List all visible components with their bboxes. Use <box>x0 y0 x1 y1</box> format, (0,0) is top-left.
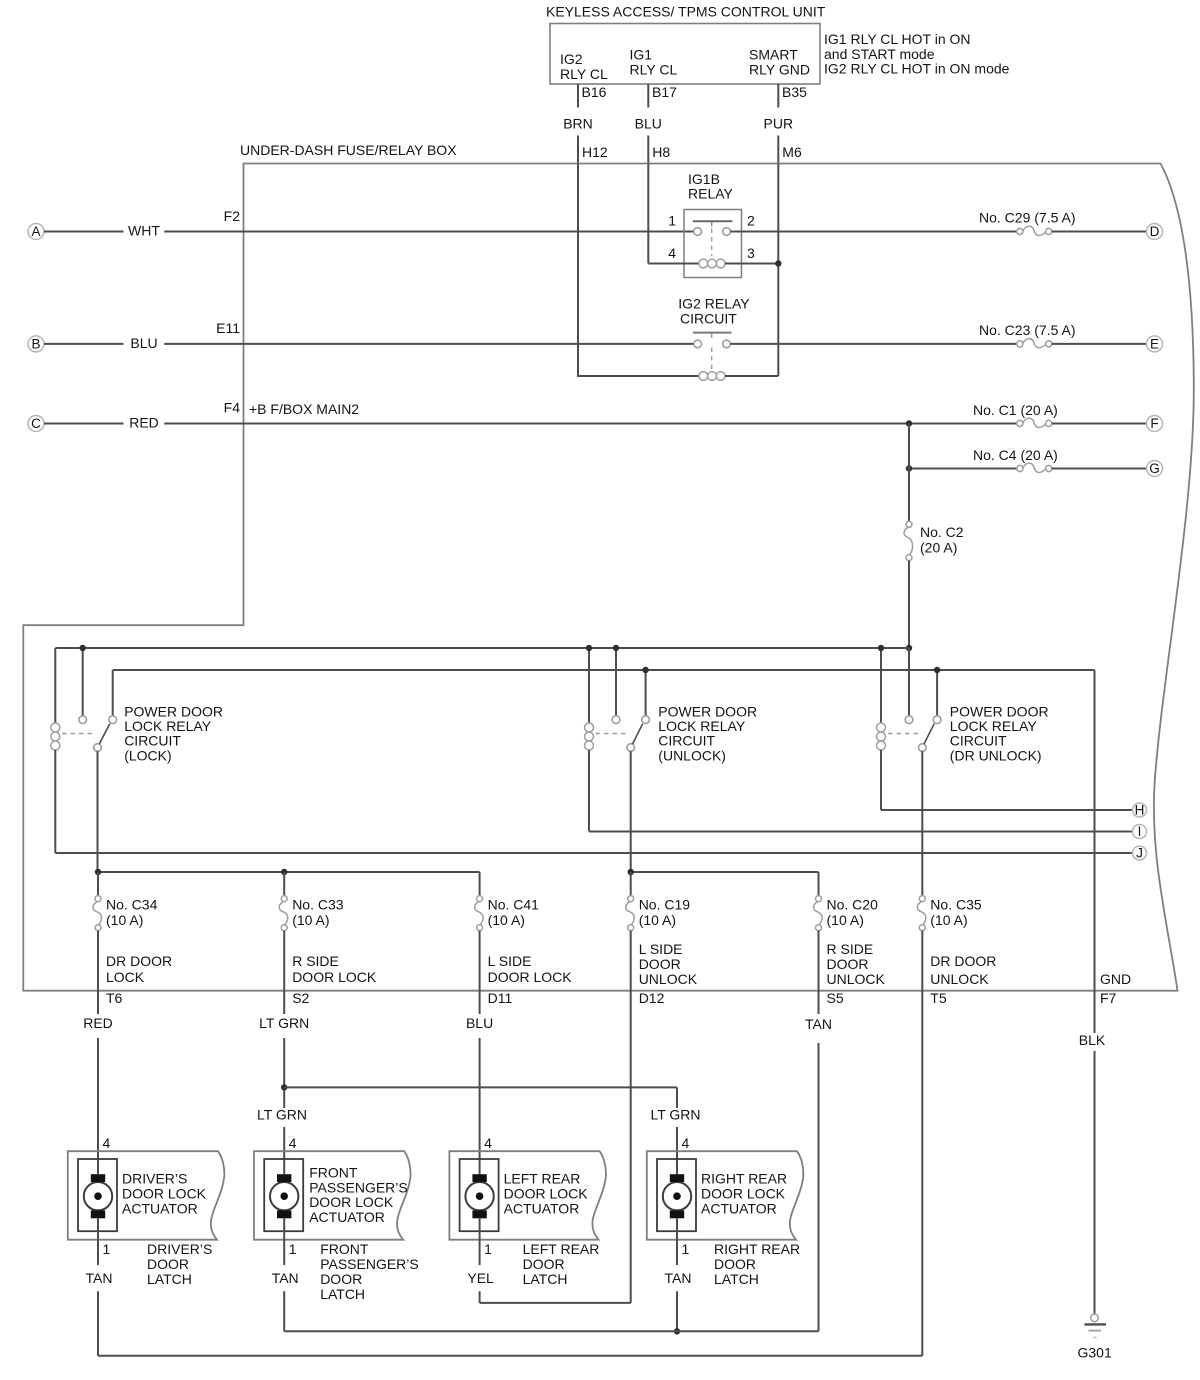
svg-text:E: E <box>1150 337 1159 352</box>
wire row B left <box>44 343 694 345</box>
under-dash fuse/relay box outline <box>23 164 1194 991</box>
svg-text:D12: D12 <box>639 990 665 1006</box>
fuse C29 <box>1017 228 1023 234</box>
relay IG1B label <box>688 171 734 202</box>
svg-text:RED: RED <box>83 1015 113 1031</box>
relay IG1B pin numbers 1,2,4,3 <box>668 213 755 262</box>
wire C29 to D <box>1052 231 1147 233</box>
fuse C34 <box>95 896 101 902</box>
svg-text:RIGHT REAR: RIGHT REAR <box>714 1241 800 1257</box>
svg-text:LATCH: LATCH <box>523 1271 568 1287</box>
svg-text:R SIDE: R SIDE <box>292 953 339 969</box>
svg-text:BLK: BLK <box>1079 1032 1106 1048</box>
pin label SMART RLY GND <box>749 47 810 78</box>
connector G <box>1147 461 1163 477</box>
svg-text:L SIDE: L SIDE <box>639 941 683 957</box>
svg-text:F2: F2 <box>224 208 241 224</box>
svg-text:DOOR: DOOR <box>320 1271 362 1287</box>
svg-text:DOOR LOCK: DOOR LOCK <box>488 969 573 985</box>
wire H8 vertical to relay pin 4 <box>648 164 684 264</box>
svg-text:1: 1 <box>289 1241 297 1257</box>
svg-text:UNLOCK: UNLOCK <box>639 971 698 987</box>
svg-text:POWER DOOR: POWER DOOR <box>658 703 757 719</box>
wire M6 vertical <box>777 164 779 377</box>
svg-text:UNLOCK: UNLOCK <box>930 971 989 987</box>
fuse C20 <box>816 896 822 902</box>
svg-text:No. C34: No. C34 <box>106 897 158 913</box>
svg-text:No. C19: No. C19 <box>639 897 691 913</box>
svg-text:1: 1 <box>103 1241 111 1257</box>
svg-text:DOOR LOCK: DOOR LOCK <box>292 969 377 985</box>
svg-text:T5: T5 <box>930 990 947 1006</box>
svg-text:LT GRN: LT GRN <box>259 1015 309 1031</box>
IG2 relay contact bar <box>693 333 732 338</box>
UNLOCK relay blade <box>633 724 643 744</box>
wire front passenger latch drop <box>283 1291 285 1331</box>
wire D11 + color BLU <box>466 931 493 1174</box>
wire S2 lower + color LT GRN <box>257 1107 307 1175</box>
power door lock relay (LOCK) coil branch <box>51 648 60 853</box>
pin B17 <box>648 84 677 108</box>
svg-text:DR DOOR: DR DOOR <box>106 953 172 969</box>
svg-text:H12: H12 <box>582 144 608 160</box>
svg-text:DOOR LOCK: DOOR LOCK <box>701 1186 786 1202</box>
wire pin1 + color TAN <box>665 1218 692 1286</box>
svg-text:F: F <box>1150 416 1158 431</box>
svg-text:DOOR LOCK: DOOR LOCK <box>504 1186 589 1202</box>
svg-text:LT GRN: LT GRN <box>257 1107 307 1123</box>
drop to fuse C33 <box>283 872 285 896</box>
svg-text:POWER DOOR: POWER DOOR <box>124 703 223 719</box>
junction row C / C2 branch <box>906 420 912 426</box>
IG2 relay circuit label <box>678 295 750 326</box>
svg-text:No. C33: No. C33 <box>292 897 344 913</box>
svg-text:H: H <box>1135 803 1145 818</box>
wire relay IG1B pin2 to fuse C29 <box>730 231 1016 233</box>
svg-text:PUR: PUR <box>764 116 794 132</box>
svg-text:TAN: TAN <box>805 1016 832 1032</box>
actuator motor <box>270 1174 298 1218</box>
latch label LEFT REAR <box>523 1241 600 1287</box>
relay IG1B contact bar <box>693 221 732 226</box>
svg-text:A: A <box>31 224 40 239</box>
DR UNLOCK relay dashed link <box>888 733 918 735</box>
svg-text:(LOCK): (LOCK) <box>124 747 171 763</box>
power door lock relay (UNLOCK) coil branch <box>585 648 594 832</box>
svg-text:4: 4 <box>484 1135 492 1151</box>
wire S5 upper + color TAN <box>805 931 832 1332</box>
svg-text:IG1 RLY CL HOT in ON: IG1 RLY CL HOT in ON <box>824 31 971 47</box>
svg-text:F7: F7 <box>1100 990 1117 1006</box>
svg-text:D: D <box>1150 224 1160 239</box>
fuse C33 <box>281 896 287 902</box>
wire C4 to G <box>1052 468 1147 470</box>
actuator label FRONT <box>309 1165 408 1225</box>
svg-text:GND: GND <box>1100 971 1131 987</box>
svg-text:ACTUATOR: ACTUATOR <box>309 1209 385 1225</box>
svg-text:DRIVER’S: DRIVER’S <box>122 1171 187 1187</box>
svg-text:RED: RED <box>129 415 159 431</box>
svg-text:No. C2: No. C2 <box>920 524 964 540</box>
LOCK relay output drop <box>97 751 99 872</box>
svg-text:G: G <box>1149 461 1160 476</box>
svg-text:DOOR: DOOR <box>827 956 869 972</box>
net label DR DOOR UNLOCK <box>930 953 996 987</box>
drop to fuse C19 <box>630 872 632 896</box>
svg-text:DOOR LOCK: DOOR LOCK <box>122 1186 207 1202</box>
svg-text:4: 4 <box>289 1135 297 1151</box>
DR UNLOCK relay blade <box>924 724 934 744</box>
svg-text:KEYLESS ACCESS/ TPMS CONTROL U: KEYLESS ACCESS/ TPMS CONTROL UNIT <box>546 4 826 20</box>
drop to fuse C34 <box>97 872 99 896</box>
UNLOCK relay contact pins <box>612 716 649 752</box>
pin label IG1 RLY CL <box>630 47 678 78</box>
ground G301 symbol <box>1084 1314 1106 1337</box>
svg-text:3: 3 <box>747 245 755 261</box>
wire C2 vertical lower <box>908 561 910 716</box>
svg-text:LOCK RELAY: LOCK RELAY <box>658 718 746 734</box>
LOCK relay dashed link <box>62 733 92 735</box>
svg-text:LOCK: LOCK <box>106 969 145 985</box>
pin B35 <box>778 84 807 108</box>
net label L SIDE DOOR LOCK <box>488 953 573 985</box>
svg-text:(10 A): (10 A) <box>106 912 143 928</box>
svg-text:YEL: YEL <box>467 1270 494 1286</box>
svg-text:No. C1 (20 A): No. C1 (20 A) <box>973 402 1058 418</box>
connector C <box>28 416 44 432</box>
actuator motor <box>663 1174 691 1218</box>
connector M6 <box>778 136 802 164</box>
svg-text:D11: D11 <box>488 990 513 1006</box>
wire driver latch to T5 <box>98 1291 922 1356</box>
relay IG1B box <box>684 210 742 278</box>
wire C23 to E <box>1052 343 1147 345</box>
svg-text:DOOR LOCK: DOOR LOCK <box>309 1194 394 1210</box>
svg-text:LATCH: LATCH <box>320 1286 365 1302</box>
svg-text:I: I <box>1138 824 1142 839</box>
latch label DRIVER’S <box>147 1241 212 1287</box>
svg-text:CIRCUIT: CIRCUIT <box>680 310 737 326</box>
control unit U1 box <box>550 24 820 85</box>
wire C4 branch <box>909 468 1017 470</box>
fuse C4 <box>1017 465 1023 471</box>
actuator box: FRONT PASSENGER’S DOOR LOCK ACTUATOR <box>254 1151 411 1240</box>
svg-text:(10 A): (10 A) <box>639 912 676 928</box>
UNLOCK relay label <box>658 703 757 763</box>
lock bus junctions <box>95 869 288 875</box>
svg-text:J: J <box>1136 846 1143 861</box>
fuse C19 <box>628 896 634 902</box>
pin label IG2 RLY CL <box>560 51 608 82</box>
svg-text:DRIVER’S: DRIVER’S <box>147 1241 212 1257</box>
svg-text:ACTUATOR: ACTUATOR <box>122 1201 198 1217</box>
svg-text:ACTUATOR: ACTUATOR <box>701 1201 777 1217</box>
connector F <box>1147 416 1163 432</box>
svg-text:IG1: IG1 <box>630 47 653 63</box>
svg-text:DOOR: DOOR <box>639 956 681 972</box>
svg-text:1: 1 <box>668 213 676 229</box>
wire C2 vertical upper <box>908 424 910 522</box>
actuator connector rect <box>657 1159 696 1231</box>
svg-text:(DR UNLOCK): (DR UNLOCK) <box>950 747 1042 763</box>
actuator motor <box>465 1174 493 1218</box>
UNLOCK relay output drop <box>630 751 632 872</box>
actuator label DRIVER’S <box>122 1171 207 1217</box>
lock output bus <box>98 872 480 896</box>
wire row C left <box>44 423 1017 425</box>
svg-text:S5: S5 <box>827 990 844 1006</box>
svg-text:PASSENGER’S: PASSENGER’S <box>320 1256 419 1272</box>
wire H12 vertical <box>577 164 579 377</box>
svg-text:CIRCUIT: CIRCUIT <box>124 733 181 749</box>
wire pin1 + color TAN <box>86 1218 113 1286</box>
svg-text:F4: F4 <box>224 400 241 416</box>
svg-text:RLY CL: RLY CL <box>560 66 608 82</box>
connector H8 <box>648 136 670 164</box>
svg-text:TAN: TAN <box>272 1270 299 1286</box>
svg-text:CIRCUIT: CIRCUIT <box>658 733 715 749</box>
svg-text:4: 4 <box>103 1135 111 1151</box>
svg-text:BRN: BRN <box>563 116 593 132</box>
svg-text:LATCH: LATCH <box>714 1271 759 1287</box>
connector E <box>1147 336 1163 352</box>
actuator motor <box>84 1174 112 1218</box>
svg-text:PASSENGER’S: PASSENGER’S <box>309 1179 408 1195</box>
unlock bus junction <box>628 869 634 875</box>
svg-text:(10 A): (10 A) <box>488 912 525 928</box>
svg-text:ACTUATOR: ACTUATOR <box>504 1201 580 1217</box>
svg-text:(10 A): (10 A) <box>827 912 864 928</box>
wire right rear pin4 + color LT GRN <box>650 1107 700 1175</box>
power door lock relay (DR UNLOCK) coil branch <box>877 648 886 810</box>
svg-text:RLY GND: RLY GND <box>749 62 810 78</box>
note: relay hot modes <box>824 31 1010 77</box>
svg-text:FRONT: FRONT <box>309 1165 358 1181</box>
fuse C41 label <box>488 897 540 929</box>
fuse C2 label <box>920 524 964 556</box>
svg-text:FRONT: FRONT <box>320 1241 369 1257</box>
UNLOCK relay dashed link <box>596 733 626 735</box>
svg-text:TAN: TAN <box>86 1270 113 1286</box>
net label R SIDE DOOR LOCK <box>292 953 377 985</box>
wire right rear latch drop <box>676 1291 678 1331</box>
svg-text:CIRCUIT: CIRCUIT <box>950 733 1007 749</box>
actuator box: DRIVER’S DOOR LOCK ACTUATOR <box>68 1151 225 1240</box>
DR UNLOCK relay contact feed drops <box>909 648 937 716</box>
actuator connector rect <box>460 1159 499 1231</box>
svg-text:BLU: BLU <box>635 116 662 132</box>
svg-text:No. C41: No. C41 <box>488 897 540 913</box>
wire T5 vertical <box>921 931 923 1356</box>
fuse C1 <box>1017 420 1023 426</box>
fuse C20 label <box>827 897 879 929</box>
DR UNLOCK relay bus junctions <box>878 645 941 673</box>
fuse C19 label <box>639 897 691 929</box>
wire relay IG1B pin3 to M6 <box>742 263 779 265</box>
LOCK relay contact pins <box>79 716 117 752</box>
svg-text:E11: E11 <box>216 320 240 336</box>
svg-text:H8: H8 <box>652 144 670 160</box>
wire row A left <box>44 231 694 233</box>
fuse C2 <box>906 521 912 527</box>
svg-text:No. C20: No. C20 <box>827 897 879 913</box>
svg-text:+B F/BOX MAIN2: +B F/BOX MAIN2 <box>249 401 359 417</box>
svg-text:WHT: WHT <box>128 223 160 239</box>
connector I <box>1133 825 1147 839</box>
junction C2/bus1 <box>906 645 912 651</box>
svg-text:L SIDE: L SIDE <box>488 953 532 969</box>
svg-text:B16: B16 <box>582 84 607 100</box>
svg-text:LEFT REAR: LEFT REAR <box>523 1241 600 1257</box>
svg-text:IG2 RELAY: IG2 RELAY <box>678 295 750 311</box>
latch label RIGHT REAR <box>714 1241 800 1287</box>
relay IG1B armature dashed link <box>711 229 713 257</box>
svg-text:DOOR: DOOR <box>147 1256 189 1272</box>
net label R SIDE DOOR UNLOCK <box>827 941 886 987</box>
svg-text:C: C <box>31 416 41 431</box>
UNLOCK relay bus junctions <box>586 645 649 673</box>
connector H <box>1133 803 1147 817</box>
actuator connector rect <box>78 1159 117 1231</box>
svg-text:LT GRN: LT GRN <box>650 1107 700 1123</box>
svg-text:LOCK RELAY: LOCK RELAY <box>950 718 1038 734</box>
svg-text:No. C23 (7.5 A): No. C23 (7.5 A) <box>979 322 1076 338</box>
svg-text:S2: S2 <box>292 990 309 1006</box>
actuator box: RIGHT REAR DOOR LOCK ACTUATOR <box>647 1151 804 1240</box>
wire pin1 + color TAN <box>272 1218 299 1286</box>
svg-text:RLY CL: RLY CL <box>630 62 678 78</box>
IG2 relay armature dashed link <box>711 348 713 372</box>
actuator label RIGHT REAR <box>701 1171 787 1217</box>
svg-text:POWER DOOR: POWER DOOR <box>950 703 1049 719</box>
wire to H <box>881 809 1133 811</box>
svg-text:4: 4 <box>682 1135 690 1151</box>
latch label FRONT <box>320 1241 419 1302</box>
fuse C41 <box>477 896 483 902</box>
svg-text:TAN: TAN <box>665 1270 692 1286</box>
IG2 relay contact pins <box>694 340 731 348</box>
wire to J <box>55 852 1132 854</box>
junction C4 branch <box>906 465 912 471</box>
wire D12 vertical <box>630 931 632 1303</box>
unlock output bus <box>631 872 819 896</box>
svg-text:4: 4 <box>668 245 676 261</box>
svg-text:BLU: BLU <box>466 1015 493 1031</box>
svg-text:1: 1 <box>682 1241 690 1257</box>
connector A <box>28 224 44 240</box>
LT GRN branch junction <box>281 1084 287 1090</box>
wire C1 to F <box>1052 423 1147 425</box>
actuator label LEFT REAR <box>504 1171 589 1217</box>
svg-text:(10 A): (10 A) <box>292 912 329 928</box>
UNLOCK relay contact feed drops <box>616 648 646 716</box>
junction pin3/M6 <box>775 260 781 266</box>
DR UNLOCK relay output drop <box>921 751 923 895</box>
svg-text:LOCK RELAY: LOCK RELAY <box>124 718 212 734</box>
svg-text:G301: G301 <box>1078 1345 1112 1361</box>
svg-text:DOOR: DOOR <box>714 1256 756 1272</box>
svg-text:2: 2 <box>747 213 755 229</box>
svg-text:No. C4 (20 A): No. C4 (20 A) <box>973 447 1058 463</box>
svg-text:(20 A): (20 A) <box>920 540 957 556</box>
svg-text:LEFT REAR: LEFT REAR <box>504 1171 581 1187</box>
svg-text:No. C35: No. C35 <box>930 897 982 913</box>
svg-text:IG2 RLY CL HOT in ON mode: IG2 RLY CL HOT in ON mode <box>824 61 1010 77</box>
connector B <box>28 336 44 352</box>
LT GRN branch wire to right rear <box>284 1087 677 1108</box>
pin B16 <box>578 84 607 108</box>
IG2 relay coil row <box>577 372 778 381</box>
svg-text:(UNLOCK): (UNLOCK) <box>658 747 726 763</box>
svg-text:T6: T6 <box>106 990 123 1006</box>
fuse C23 <box>1017 341 1023 347</box>
svg-text:DR DOOR: DR DOOR <box>930 953 996 969</box>
actuator box: LEFT REAR DOOR LOCK ACTUATOR <box>449 1151 606 1240</box>
connector D <box>1147 224 1163 240</box>
fuse C34 label <box>106 897 158 929</box>
wire S5 bottom line <box>284 1330 818 1332</box>
fuse C35 <box>919 896 925 902</box>
relay IG1B contact pins <box>694 228 731 236</box>
svg-text:B: B <box>31 337 40 352</box>
wire to I <box>589 831 1133 833</box>
LOCK relay blade <box>99 724 110 744</box>
svg-text:IG2: IG2 <box>560 51 583 67</box>
svg-text:B17: B17 <box>652 84 677 100</box>
actuator connector rect <box>264 1159 303 1231</box>
svg-text:R SIDE: R SIDE <box>827 941 874 957</box>
LOCK relay contact feed drops <box>83 648 113 716</box>
svg-text:(10 A): (10 A) <box>930 912 967 928</box>
bus line 2 (switch feed) <box>113 669 1095 671</box>
wire F7 / GND + color BLK <box>1079 670 1106 1314</box>
connector H12 <box>578 136 608 164</box>
svg-text:RELAY: RELAY <box>688 186 734 202</box>
svg-text:UNLOCK: UNLOCK <box>827 971 886 987</box>
LOCK relay bus junctions <box>80 645 86 651</box>
svg-text:No. C29 (7.5 A): No. C29 (7.5 A) <box>979 210 1076 226</box>
junction right rear on S5 line <box>674 1328 680 1334</box>
svg-text:M6: M6 <box>782 144 802 160</box>
wire T6 upper + color RED <box>83 931 113 1174</box>
wire pin1 + color YEL <box>467 1218 494 1286</box>
wire S2 upper + color LT GRN <box>259 931 309 1108</box>
fuse C33 label <box>292 897 344 929</box>
svg-text:RIGHT REAR: RIGHT REAR <box>701 1171 787 1187</box>
svg-text:B35: B35 <box>782 84 807 100</box>
fuse C35 label <box>930 897 982 929</box>
svg-text:BLU: BLU <box>130 335 157 351</box>
net label L SIDE DOOR UNLOCK <box>639 941 698 987</box>
svg-text:1: 1 <box>484 1241 492 1257</box>
svg-text:LATCH: LATCH <box>147 1271 192 1287</box>
wire IG2 relay output to fuse C23 <box>730 343 1016 345</box>
bus line 1 (lock feed) <box>55 647 909 649</box>
DR UNLOCK relay label <box>950 703 1049 763</box>
svg-text:SMART: SMART <box>749 47 798 63</box>
DR UNLOCK relay contact pins <box>905 716 941 752</box>
wire left rear latch to D12 <box>480 1291 631 1303</box>
connector J <box>1133 846 1147 860</box>
svg-text:UNDER-DASH FUSE/RELAY BOX: UNDER-DASH FUSE/RELAY BOX <box>240 142 457 158</box>
LOCK relay label <box>124 703 223 763</box>
net label DR DOOR LOCK <box>106 953 172 985</box>
relay IG1B coil <box>684 259 742 268</box>
svg-text:DOOR: DOOR <box>523 1256 565 1272</box>
